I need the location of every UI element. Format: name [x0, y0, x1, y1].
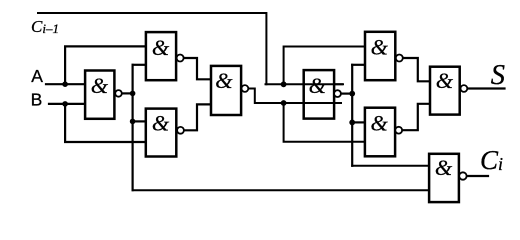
svg-text:&: &	[436, 68, 454, 93]
svg-text:&: &	[435, 155, 453, 180]
svg-text:&: &	[152, 110, 170, 135]
svg-text:B: B	[31, 89, 43, 109]
svg-text:A: A	[31, 66, 43, 86]
svg-text:&: &	[371, 110, 389, 135]
svg-text:&: &	[91, 73, 109, 98]
svg-text:S: S	[491, 60, 505, 91]
svg-text:&: &	[215, 68, 233, 93]
svg-text:&: &	[371, 34, 389, 59]
svg-text:&: &	[152, 35, 170, 60]
svg-text:&: &	[309, 73, 327, 98]
